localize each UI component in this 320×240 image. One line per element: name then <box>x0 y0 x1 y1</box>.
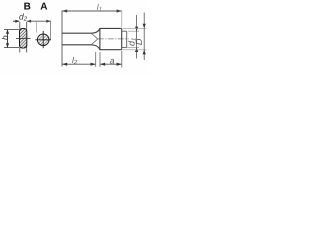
d1 dimension line with outside arrows <box>135 15 138 59</box>
flare top curve <box>92 29 100 34</box>
a dimension line <box>100 63 122 66</box>
l1 right extension line <box>121 11 123 28</box>
d1 extension lines <box>128 30 139 32</box>
blade tip edge / left extension line <box>61 11 63 67</box>
dimension d2 right segment + circle dim line with arrows <box>27 20 51 23</box>
extension line right of section B <box>26 22 28 53</box>
view A circle hatched <box>37 34 49 46</box>
extension line circle left <box>36 21 38 33</box>
dimension d2 left segment with arrow <box>13 20 20 23</box>
extension line left of section B <box>19 22 21 53</box>
l1 dimension line <box>62 9 122 12</box>
flare bottom curve <box>92 45 100 50</box>
b dimension line with arrows <box>6 30 9 48</box>
D extension lines <box>123 27 147 29</box>
svg-text:b: b <box>0 35 10 40</box>
a right extension line <box>121 51 123 68</box>
svg-text:d2: d2 <box>19 12 28 23</box>
extension line circle right <box>50 21 52 40</box>
a left extension line <box>99 52 101 67</box>
sleeve outline <box>99 28 121 49</box>
view A vertical centerline <box>42 31 44 48</box>
pin outline <box>122 31 127 47</box>
section B stadium hatched <box>20 29 27 49</box>
svg-text:B: B <box>24 2 31 13</box>
l2 right extension line <box>95 52 97 67</box>
wedge top line <box>92 34 98 39</box>
wedge bottom line <box>92 39 98 45</box>
blade bottom edge <box>62 44 92 46</box>
view A horizontal centerline <box>35 39 51 41</box>
b dimension extension ticks <box>4 29 19 31</box>
centerline of shank <box>98 38 129 40</box>
svg-text:A: A <box>40 2 47 13</box>
blade top edge <box>62 32 92 34</box>
D dimension line with outside arrows <box>143 13 146 61</box>
section B centerline <box>16 37 31 39</box>
l2 dimension line <box>62 63 96 66</box>
svg-text:D: D <box>134 38 144 45</box>
